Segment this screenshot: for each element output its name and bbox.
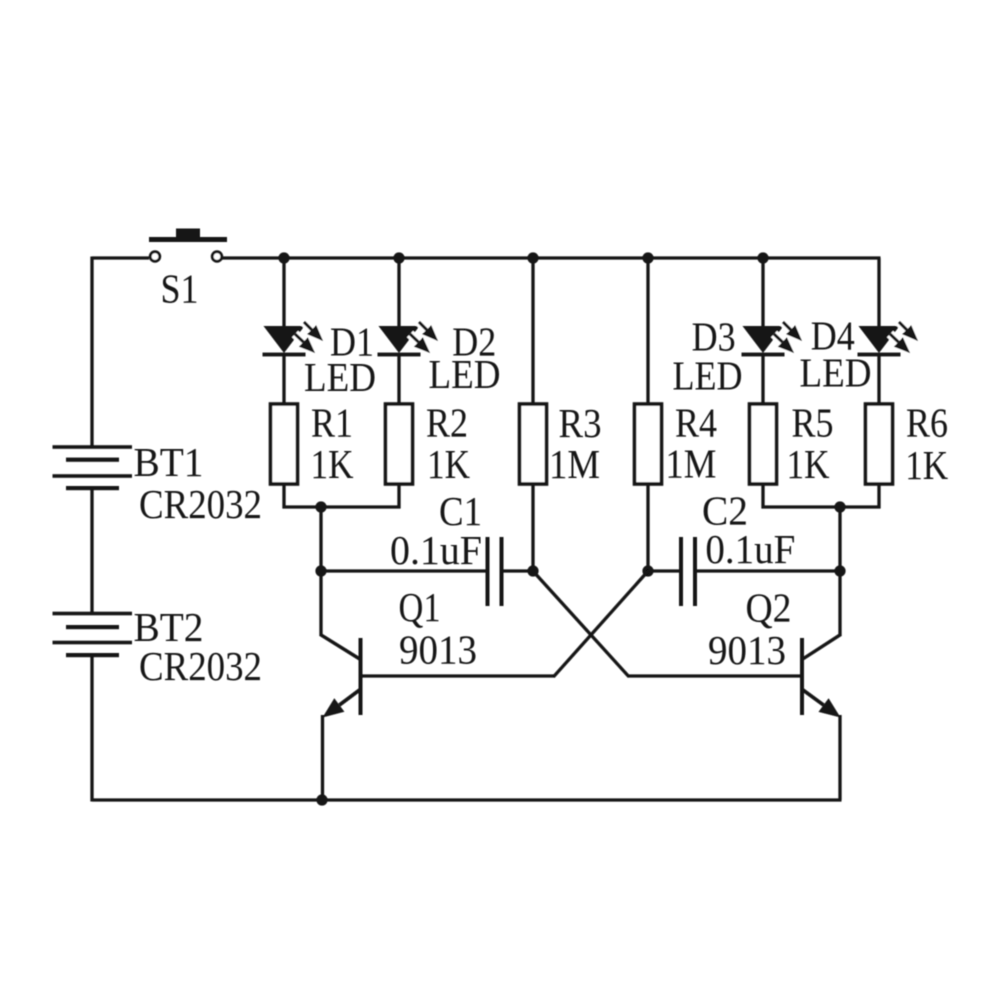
svg-text:R3: R3 bbox=[559, 400, 602, 446]
svg-text:Q2: Q2 bbox=[746, 584, 792, 630]
svg-text:1K: 1K bbox=[905, 442, 948, 488]
svg-text:9013: 9013 bbox=[708, 627, 786, 673]
svg-text:9013: 9013 bbox=[399, 626, 477, 672]
svg-text:R6: R6 bbox=[906, 400, 948, 446]
svg-text:R4: R4 bbox=[675, 400, 717, 446]
svg-text:LED: LED bbox=[673, 353, 743, 399]
svg-text:S1: S1 bbox=[161, 266, 199, 312]
svg-text:0.1uF: 0.1uF bbox=[705, 526, 795, 572]
svg-text:BT1: BT1 bbox=[134, 439, 204, 485]
svg-text:LED: LED bbox=[304, 354, 376, 400]
svg-text:0.1uF: 0.1uF bbox=[390, 527, 482, 573]
svg-text:1M: 1M bbox=[549, 441, 600, 487]
svg-text:1M: 1M bbox=[665, 441, 716, 487]
svg-text:R5: R5 bbox=[792, 400, 834, 446]
svg-text:LED: LED bbox=[800, 350, 872, 396]
svg-text:CR2032: CR2032 bbox=[139, 481, 262, 527]
svg-text:R2: R2 bbox=[426, 399, 468, 445]
svg-text:CR2032: CR2032 bbox=[139, 643, 262, 689]
svg-text:R1: R1 bbox=[311, 399, 353, 445]
svg-text:Q1: Q1 bbox=[399, 584, 441, 630]
svg-text:LED: LED bbox=[429, 351, 501, 397]
svg-text:1K: 1K bbox=[311, 441, 354, 487]
svg-text:1K: 1K bbox=[787, 441, 830, 487]
svg-text:1K: 1K bbox=[427, 441, 470, 487]
